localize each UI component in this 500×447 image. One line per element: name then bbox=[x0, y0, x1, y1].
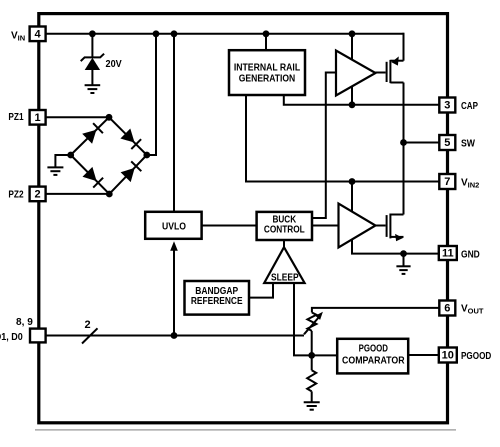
svg-text:SW: SW bbox=[461, 138, 475, 149]
svg-text:PZ2: PZ2 bbox=[8, 189, 24, 200]
svg-text:UVLO: UVLO bbox=[162, 222, 186, 233]
svg-text:REFERENCE: REFERENCE bbox=[191, 296, 243, 307]
wire SW line bbox=[404, 142, 440, 144]
wire zener to ground bbox=[91, 70, 93, 85]
node bridge bottom bbox=[106, 191, 113, 198]
wire SW node vertical bbox=[403, 83, 405, 215]
svg-text:8, 9: 8, 9 bbox=[16, 317, 33, 328]
svg-text:10: 10 bbox=[442, 350, 454, 362]
wire zener stub bbox=[91, 34, 93, 58]
node VIN2 junction bbox=[349, 178, 356, 185]
diode bridge bottom-right bbox=[121, 161, 142, 182]
block BANDGAP REFERENCE bbox=[185, 281, 250, 315]
svg-text:20V: 20V bbox=[106, 59, 122, 70]
diode bridge top-right bbox=[120, 129, 141, 150]
wire BUCK to SLEEP apex bbox=[283, 240, 285, 249]
svg-text:PGOOD: PGOOD bbox=[359, 344, 388, 355]
wire VIN rail drop to PMOS drain bbox=[403, 33, 405, 61]
wire bridge feed bbox=[146, 34, 156, 155]
comparator SLEEP bbox=[264, 247, 304, 283]
wire PGOOD comparator to pin bbox=[408, 354, 439, 356]
node D bus junction bbox=[171, 332, 178, 339]
pin 7 VIN2 bbox=[439, 174, 455, 189]
wire BANDGAP to SLEEP input bbox=[249, 283, 273, 298]
wire CAP line bbox=[284, 94, 440, 105]
svg-text:6: 6 bbox=[444, 303, 450, 315]
svg-text:GENERATION: GENERATION bbox=[239, 73, 296, 84]
wire FB node to PGOOD comparator bbox=[312, 354, 338, 356]
block INTERNAL RAIL GENERATION bbox=[229, 50, 305, 95]
svg-text:CAP: CAP bbox=[461, 101, 478, 112]
ground (divider) bbox=[304, 402, 320, 410]
node VIN-UVLO junction bbox=[171, 30, 178, 37]
ground (NMOS source) bbox=[396, 266, 410, 274]
node SW junction bbox=[400, 139, 407, 146]
svg-text:2: 2 bbox=[35, 189, 41, 201]
wire bottom driver lower supply to GND line bbox=[352, 240, 439, 254]
pin 10 PGOOD bbox=[439, 348, 457, 363]
block UVLO bbox=[145, 212, 201, 239]
ground (bridge) bbox=[47, 167, 63, 175]
svg-text:PZ1: PZ1 bbox=[8, 112, 24, 123]
wire PZ1 to bridge bbox=[46, 116, 109, 118]
svg-text:11: 11 bbox=[442, 248, 454, 260]
ground (zener) bbox=[85, 85, 101, 93]
wire D bus from pin bbox=[46, 335, 174, 337]
wire top driver upper supply bbox=[351, 34, 353, 60]
svg-text:CONTROL: CONTROL bbox=[264, 225, 305, 236]
wire FB node to resistor bbox=[311, 355, 313, 370]
svg-text:3: 3 bbox=[444, 100, 450, 112]
wire BUCK lower output to bottom driver input bbox=[312, 225, 339, 227]
svg-text:5: 5 bbox=[444, 137, 450, 149]
node VIN-IRG junction bbox=[263, 30, 270, 37]
pin 2 PZ2 bbox=[30, 187, 46, 202]
bridge rectifier arms bbox=[71, 117, 147, 194]
diode bridge bottom-left bbox=[83, 167, 104, 188]
pin 3 CAP bbox=[439, 98, 455, 113]
wire UVLO feed from VIN bbox=[173, 34, 175, 211]
svg-text:D1, D0: D1, D0 bbox=[0, 332, 23, 343]
bus slash mark bbox=[82, 328, 98, 343]
pin 11 GND bbox=[439, 246, 457, 260]
wire bottom driver upper supply bbox=[351, 182, 353, 212]
op-amp bottom gate driver bbox=[339, 204, 376, 248]
wire VIN2 line bbox=[246, 94, 439, 182]
wire VIN rail bbox=[46, 33, 404, 35]
pin D1 D0 bbox=[30, 329, 46, 343]
wire NMOS ground stub bbox=[403, 254, 405, 266]
svg-text:4: 4 bbox=[35, 29, 42, 41]
svg-text:7: 7 bbox=[444, 176, 450, 188]
svg-text:INTERNAL RAIL: INTERNAL RAIL bbox=[234, 63, 300, 74]
wire SLEEP feedback sense bbox=[294, 283, 312, 355]
zener diode 20V bbox=[81, 54, 104, 70]
transistor PMOS top bbox=[375, 56, 403, 83]
resistor divider bottom bbox=[307, 370, 316, 391]
wire D bus to divider wiper bbox=[174, 335, 304, 337]
pin 5 SW bbox=[439, 135, 455, 150]
node bridge left bbox=[67, 152, 74, 159]
wire IRG feed from VIN bbox=[265, 34, 267, 51]
svg-text:2: 2 bbox=[84, 319, 90, 331]
node CAP junction bbox=[349, 101, 356, 108]
IC outline border bbox=[39, 14, 448, 423]
pin 6 VOUT bbox=[439, 301, 455, 316]
svg-text:1: 1 bbox=[35, 112, 41, 124]
wire bridge ground stub bbox=[55, 155, 70, 167]
transistor NMOS bottom bbox=[375, 214, 403, 242]
node VIN-bridge junction bbox=[153, 30, 160, 37]
svg-text:COMPARATOR: COMPARATOR bbox=[342, 356, 405, 367]
wire top driver lower supply to CAP bbox=[351, 86, 353, 104]
block PGOOD COMPARATOR bbox=[337, 339, 408, 374]
wire BUCK upper output to top driver input bbox=[312, 73, 336, 219]
node feedback junction bbox=[308, 352, 315, 359]
diode bridge top-left bbox=[82, 123, 103, 144]
node GND junction bbox=[400, 250, 407, 257]
svg-text:PGOOD: PGOOD bbox=[461, 351, 491, 362]
wire resistor to ground bbox=[311, 391, 313, 402]
node VIN-zener junction bbox=[89, 30, 96, 37]
pin 4 VIN bbox=[30, 27, 46, 42]
arrow into UVLO bbox=[170, 241, 178, 250]
op-amp top gate driver bbox=[336, 51, 376, 96]
svg-text:SLEEP: SLEEP bbox=[271, 272, 299, 283]
wire UVLO to BUCK bbox=[202, 225, 257, 227]
svg-text:GND: GND bbox=[461, 249, 480, 260]
resistor adjustable divider top bbox=[304, 312, 323, 335]
node VIN-driver junction bbox=[349, 30, 356, 37]
pin 1 PZ1 bbox=[30, 110, 46, 125]
wire VOUT line bbox=[312, 308, 439, 313]
block BUCK CONTROL bbox=[257, 212, 312, 240]
wire rheostat to FB node bbox=[311, 331, 313, 355]
wire D bus branch to UVLO bbox=[173, 250, 175, 336]
wire PZ2 to bridge bbox=[46, 193, 110, 195]
node bridge top bbox=[106, 114, 113, 121]
page rule artifact bbox=[35, 429, 456, 431]
node bridge right bbox=[143, 152, 150, 159]
